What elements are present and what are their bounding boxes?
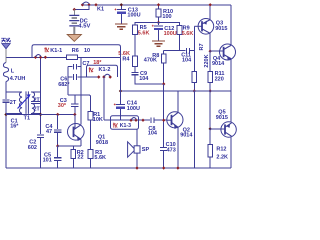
junction R11 bias wire: [209, 89, 212, 92]
label T1: [24, 115, 30, 121]
resistor R2: [71, 150, 76, 159]
label shou K1-2: [89, 67, 94, 72]
label C10 value: [167, 147, 176, 153]
wire C14 top lead: [120, 91, 122, 104]
label R11: [215, 71, 225, 77]
label C13: [128, 7, 138, 13]
wire C1 column upper: [5, 92, 7, 99]
wire Q3 collector down: [209, 33, 211, 51]
wire Q3 base column: [193, 26, 195, 71]
wire C13 top lead: [120, 5, 122, 10]
junction R10 rail: [157, 3, 160, 6]
capacitor C1: [3, 100, 10, 102]
wire K1-1 switched line: [32, 56, 121, 58]
svg-text:473: 473: [167, 147, 176, 153]
wire C5 upper lead: [57, 146, 59, 157]
label Q3 type: [215, 26, 227, 32]
label K1-2: [99, 67, 111, 73]
label R2 value: [77, 155, 83, 161]
svg-text:104: 104: [148, 131, 158, 137]
label C1: [11, 118, 18, 124]
resistor R10: [156, 9, 161, 17]
junction left column y114: [4, 113, 7, 116]
wire secondary stub mid2: [31, 103, 41, 105]
label C8 value: [148, 131, 158, 137]
transistor Q2: [167, 112, 183, 129]
label L: [11, 68, 15, 74]
label C9 value: [139, 76, 149, 82]
switch K1-1 lever: [36, 55, 41, 57]
wire R7 bottom to bias wire: [193, 83, 195, 91]
label C14 value: [127, 106, 140, 112]
label R6: [72, 48, 79, 54]
wire C3 bottom lead: [74, 107, 76, 115]
svg-text:9015: 9015: [215, 26, 227, 32]
label R7: [199, 43, 205, 50]
junction K1-1 contact mid: [39, 56, 42, 59]
label C14: [127, 101, 138, 107]
svg-text:100: 100: [162, 14, 171, 20]
wire Q3 collector to R11: [209, 51, 211, 71]
label C5: [44, 152, 51, 158]
junction C13 rail: [120, 3, 123, 6]
junction R8 C9 node: [162, 82, 165, 85]
wire Q4 base lead: [210, 50, 223, 52]
svg-text:K1: K1: [97, 7, 104, 13]
label R5 value: [138, 31, 150, 37]
label R12 value: [216, 154, 228, 160]
label C12: [164, 26, 174, 32]
junction K1-2 contact right: [109, 75, 112, 78]
label R3 value: [94, 155, 106, 161]
label R7 value: [204, 54, 210, 67]
junction Q4 base node: [209, 50, 212, 53]
svg-text:220: 220: [215, 76, 224, 82]
wire primary bottom: [6, 112, 22, 114]
svg-text:100U: 100U: [127, 106, 140, 112]
ground at C12: [152, 41, 165, 46]
junction C10 ground: [162, 166, 165, 169]
label Q3: [216, 20, 223, 26]
label C4: [45, 124, 53, 130]
svg-text:47: 47: [46, 129, 52, 135]
svg-text:2T: 2T: [10, 100, 17, 106]
svg-text:R6: R6: [72, 48, 79, 54]
resistor R9: [177, 26, 182, 35]
resistor R11: [208, 72, 213, 83]
label R1 value: [93, 117, 103, 123]
antenna symbol: [2, 44, 10, 49]
wire bias line: [121, 90, 232, 92]
label antenna tianxian: [1, 38, 10, 43]
wire R10 top lead: [158, 5, 160, 9]
label K1-3: [120, 123, 131, 129]
wire C4 to emitter wire: [57, 132, 59, 146]
svg-text:4.7UH: 4.7UH: [10, 76, 26, 82]
label C12 value: [164, 31, 177, 37]
transformer T1: [18, 91, 35, 114]
svg-text:K1-3: K1-3: [120, 123, 131, 129]
wire C14 bottom lead: [120, 109, 122, 120]
junction battery feed: [73, 8, 76, 11]
wire C7 left lead: [68, 66, 72, 68]
svg-text:100U: 100U: [127, 12, 140, 18]
label R4 value: [118, 51, 130, 57]
wire C8 to Q2 base: [155, 119, 168, 121]
resistor R4: [133, 56, 138, 67]
label 2T primary: [10, 100, 17, 106]
label K1-1: [50, 48, 62, 54]
wire C2 to ground rail: [40, 137, 42, 168]
junction K1-2 contact mid: [102, 75, 105, 78]
wire R8 node down across bias wire: [163, 84, 165, 147]
wire L to primary: [5, 82, 7, 93]
label Q5 type: [216, 115, 228, 121]
capacitor C13: [115, 8, 126, 13]
label 2T secondary bottom: [34, 107, 41, 113]
wire Q3 emitter to rail: [209, 5, 211, 20]
label Q2 type: [180, 133, 193, 139]
capacitor C10: [160, 148, 167, 151]
transistor Q5: [221, 122, 236, 137]
label R9: [183, 25, 190, 31]
label R6 value 10: [84, 48, 90, 54]
svg-text:5.6K: 5.6K: [138, 31, 150, 37]
svg-text:K1-1: K1-1: [50, 48, 62, 54]
power arrow symbol: [67, 27, 81, 42]
label R2: [77, 150, 84, 156]
wire R7 node to ground rail: [193, 91, 195, 168]
label SP: [142, 147, 150, 153]
label 2T secondary top: [34, 97, 41, 103]
wire Q5 base node to R12: [209, 129, 211, 145]
capacitor C4: [54, 130, 62, 132]
transistor Q4: [220, 44, 236, 60]
label C7: [82, 61, 89, 67]
wire R12 to ground rail: [209, 157, 211, 168]
label L value: [10, 76, 26, 82]
wire K1-1 to transformer column: [40, 57, 42, 134]
transistor Q3: [194, 19, 213, 35]
wire K1-1 box output down: [120, 57, 122, 91]
wire Q5 collector to ground rail: [230, 136, 232, 168]
wire transformer bottom to Q1 base: [6, 114, 75, 116]
wire Q4 emitter down to Q5: [230, 59, 232, 123]
capacitor C7: [73, 64, 76, 70]
svg-text:100U: 100U: [164, 31, 177, 37]
svg-text:R7: R7: [199, 43, 205, 50]
wire secondary stub mid1: [31, 101, 41, 103]
svg-text:5.6K: 5.6K: [94, 155, 106, 161]
junction C14 bias wire: [119, 89, 122, 92]
wire Q1 base lead: [74, 115, 76, 129]
svg-text:2T: 2T: [34, 97, 41, 103]
svg-text:K1-2: K1-2: [99, 67, 111, 73]
junction speaker ground: [135, 166, 138, 169]
capacitor C8: [151, 117, 154, 123]
junction K1-3 contact left: [129, 119, 132, 122]
label Q1 type: [96, 140, 108, 146]
label R4: [122, 56, 130, 62]
wire audio line: [104, 119, 150, 121]
svg-text:9015: 9015: [216, 115, 228, 121]
svg-text:9014: 9014: [212, 61, 225, 67]
wire R5 to R4: [134, 35, 136, 57]
junction R7 bias wire: [193, 89, 196, 92]
svg-text:104: 104: [139, 76, 149, 82]
wire R8 to C11 node: [164, 50, 186, 52]
svg-text:9018: 9018: [96, 140, 108, 146]
capacitor C2: [37, 135, 44, 137]
switch K1-2 lever: [104, 74, 110, 76]
svg-text:30*: 30*: [58, 103, 67, 109]
svg-text:22: 22: [77, 155, 83, 161]
svg-text:101: 101: [43, 158, 52, 164]
label K1: [97, 7, 104, 13]
label C6: [60, 77, 67, 83]
wire R8 bottom to bias node: [163, 63, 165, 84]
junction K1-3 output: [141, 119, 144, 122]
capacitor C14: [114, 103, 125, 108]
label DC: [80, 19, 88, 25]
junction R10 rail2: [157, 21, 160, 24]
resistor R7: [192, 72, 197, 83]
svg-text:2T: 2T: [34, 107, 41, 113]
label R3: [95, 150, 102, 156]
resistor R6: [67, 55, 78, 59]
ground at C13: [115, 24, 128, 29]
label R10: [163, 9, 173, 15]
svg-text:10: 10: [84, 48, 90, 54]
wire R2 to ground rail: [72, 158, 74, 168]
wire C6 right lead: [78, 76, 99, 78]
svg-text:SP: SP: [142, 147, 150, 153]
svg-text:10K: 10K: [93, 117, 103, 123]
junction C10 audio line: [162, 119, 165, 122]
label C10: [166, 142, 176, 148]
wire battery positive feed: [74, 5, 89, 10]
svg-text:5.6K: 5.6K: [182, 31, 194, 37]
label Q2: [183, 127, 190, 133]
label R8 value: [144, 58, 157, 64]
wire primary top: [6, 91, 22, 93]
svg-text:16*: 16*: [10, 124, 19, 130]
wire bottom ground rail: [6, 167, 231, 169]
svg-text:R4: R4: [122, 56, 130, 62]
svg-text:C7: C7: [82, 61, 89, 67]
label R1: [93, 112, 100, 118]
wire C5 to ground rail: [57, 160, 59, 168]
wire C12 to ground: [158, 30, 160, 40]
junction K1-1 contact right: [44, 56, 47, 59]
switch K1-3 lever: [131, 117, 136, 119]
wire R4 to C9: [134, 67, 136, 73]
label Q4 type: [212, 61, 225, 67]
inductor L: [3, 63, 8, 82]
wire secondary stub top: [31, 91, 41, 93]
label C13 value: [127, 12, 140, 18]
wire C6 left lead: [68, 76, 72, 78]
wire C3 top lead: [74, 95, 76, 104]
svg-text:470K: 470K: [144, 58, 157, 64]
label C4 value: [46, 129, 52, 135]
junction K1-3 contact mid: [134, 119, 137, 122]
wire C7 C6 left join: [67, 67, 69, 95]
wire secondary stub bottom: [31, 112, 41, 114]
junction Q3 emitter rail: [209, 3, 212, 6]
label R5: [140, 25, 147, 31]
wire C10 to ground rail: [163, 150, 165, 168]
capacitor C9: [132, 72, 139, 74]
junction transformer column y114: [39, 113, 42, 116]
capacitor C3: [71, 104, 79, 107]
wire C9 down and right to R8 node: [135, 75, 164, 84]
wire left column upper: [5, 57, 7, 62]
wire R10 bottom lead: [158, 17, 160, 22]
wire R9 bottom lead: [179, 35, 181, 51]
wire C7 right lead: [78, 66, 81, 68]
capacitor C6: [73, 74, 76, 80]
label C11: [181, 52, 191, 58]
wire battery top lead: [73, 10, 75, 16]
capacitor C11: [186, 48, 189, 54]
svg-text:2.2K: 2.2K: [216, 154, 228, 160]
wire C12 top lead: [158, 23, 160, 26]
switch K1 lever: [83, 2, 90, 4]
wire branch B upper: [57, 115, 59, 130]
wire Q5 base column: [209, 91, 211, 129]
wire Q1 emitter down: [80, 140, 82, 147]
resistor R3: [88, 150, 93, 159]
label C3: [60, 98, 67, 104]
label C7 value: [93, 60, 102, 66]
wire K1-2 output down: [103, 77, 105, 120]
label C3 value: [58, 103, 67, 109]
label R12: [216, 146, 226, 152]
wire Q2 collector up: [177, 91, 179, 112]
svg-text:220K: 220K: [204, 54, 210, 67]
svg-text:T1: T1: [24, 115, 30, 121]
label R10 value: [162, 14, 171, 20]
wire C1 column lower: [5, 102, 7, 168]
label C1 value: [10, 124, 19, 130]
junction switch K1 contact left: [81, 3, 84, 6]
label Q5: [218, 110, 225, 116]
junction K1-2 contact left: [97, 75, 100, 78]
wire Q2 emitter down: [177, 127, 179, 168]
svg-text:602: 602: [28, 145, 37, 151]
wire R1 bottom down: [90, 120, 92, 149]
label R9 value: [182, 31, 194, 37]
switch box K1-1: [32, 45, 121, 58]
junction Q5 base node: [209, 127, 212, 130]
wire emitter node: [58, 145, 81, 147]
label C5 value: [43, 158, 52, 164]
svg-text:4.5V: 4.5V: [78, 24, 90, 30]
wire Q4 collector to rail: [230, 5, 232, 45]
wire antenna stem: [5, 49, 7, 58]
speaker SP: [128, 142, 140, 157]
label C2: [29, 140, 36, 146]
label C9: [140, 71, 147, 77]
battery DC 4.5V: [69, 15, 79, 26]
svg-text:R12: R12: [216, 146, 226, 152]
wire R3 to ground rail: [90, 158, 92, 168]
label Q4: [213, 56, 221, 62]
wire detector node: [68, 95, 90, 112]
wire Q5 base lead: [210, 128, 225, 130]
junction branch B emitter wire: [56, 144, 59, 147]
wire speaker bottom lead: [136, 153, 138, 168]
resistor R12: [208, 145, 213, 158]
switch box K1-2: [87, 65, 118, 77]
label C11 value: [182, 57, 192, 63]
capacitor C5: [54, 158, 62, 161]
label R11 value: [215, 76, 224, 82]
label C8: [148, 126, 155, 132]
wire antenna to K1-1: [6, 56, 32, 58]
resistor R8: [161, 54, 166, 63]
label shou K1-3: [113, 123, 118, 128]
capacitor C12: [152, 25, 163, 30]
label C2 value: [28, 145, 37, 151]
junction Q2 emitter ground: [176, 166, 179, 169]
junction switch K1 contact mid: [87, 3, 90, 6]
wire speaker top lead: [136, 129, 138, 146]
junction switch K1 contact right: [94, 3, 97, 6]
svg-text:104: 104: [182, 57, 192, 63]
wire R11 bottom to bias wire: [209, 83, 211, 91]
label R8: [152, 53, 159, 59]
wire R2 top lead: [72, 146, 74, 150]
transistor Q1: [68, 124, 85, 142]
wire R8 top lead: [163, 51, 165, 55]
junction Q1 base node: [73, 113, 76, 116]
switch box K1-3: [111, 116, 139, 130]
wire top supply rail: [81, 4, 231, 6]
svg-text:9014: 9014: [180, 133, 193, 139]
label 4.5V: [78, 24, 90, 30]
wire Q1 collector up: [80, 57, 82, 124]
junction K1-1 contact left: [34, 56, 37, 59]
label C6 value: [58, 82, 70, 88]
label shou K1-1: [44, 47, 49, 52]
resistor R1: [88, 112, 93, 121]
label Q1: [98, 135, 105, 141]
wire C11 to Q3 base line: [190, 50, 194, 52]
wire R1 R3 join: [90, 146, 92, 150]
wire secondary supply rail: [135, 23, 180, 26]
wire C13 to ground: [120, 14, 122, 24]
junction branch B top: [56, 113, 59, 116]
resistor R5: [133, 25, 138, 35]
